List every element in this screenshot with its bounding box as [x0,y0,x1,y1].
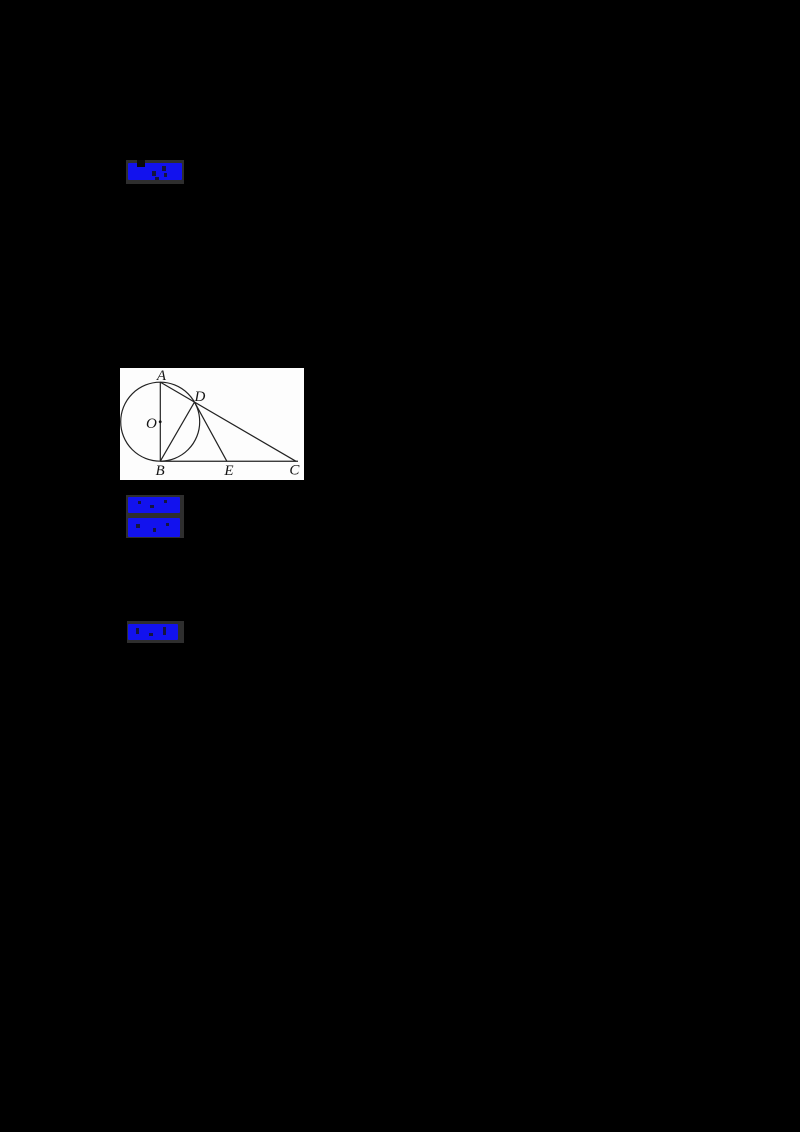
geometry figure white panel [120,368,304,480]
segment DE [195,402,227,461]
diameter AB [159,382,161,461]
highlighted blue label block 1 (【解析】) with dark-gray highlight box [126,160,184,184]
svg-text:C: C [289,463,300,479]
secant line ADC [160,382,296,461]
highlighted blue label block 2 line1 (【考点】) and line2 (【分析】) [126,495,184,538]
svg-text:B: B [156,463,165,479]
svg-text:A: A [156,368,167,384]
base line BC [160,460,298,462]
highlighted blue label block 3 (【解答】) [127,621,184,643]
svg-text:D: D [193,389,205,405]
chord BD [160,402,194,461]
circle O [121,382,200,461]
svg-text:O: O [146,416,157,432]
geometry figure: circle O with diameter AB, secant ADC, chord BD, segment DE [120,368,304,480]
center dot O [159,420,162,423]
svg-text:E: E [223,463,233,479]
